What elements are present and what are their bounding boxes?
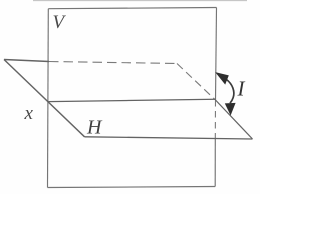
- plane V top edge: [48, 8, 216, 9]
- plane H left front edge A to B: [4, 60, 85, 137]
- plane H back top edge hidden (dashed): [49, 62, 177, 64]
- plane V bottom edge: [48, 187, 216, 188]
- svg-text:x: x: [24, 103, 34, 124]
- rotation arrow upper head: [215, 72, 229, 85]
- rotation arrow lower head: [225, 103, 236, 116]
- svg-text:H: H: [86, 117, 103, 139]
- plane H back right edge hidden (dashed): [177, 64, 216, 101]
- plane V right edge hidden dashed part: [214, 100, 216, 139]
- plane H left tip front top edge (solid): [4, 60, 49, 62]
- plane V left edge: [47, 9, 50, 188]
- plane H front bottom edge B to C: [85, 137, 253, 139]
- axis x intersection line of V and H: [48, 99, 216, 101]
- plane H right edge visible outside V (solid): [216, 100, 253, 139]
- scan artifact top line: [33, 0, 247, 2]
- rotation arrow arc: [227, 80, 234, 104]
- svg-text:I: I: [237, 77, 246, 101]
- plane V right edge lower solid part: [214, 139, 216, 187]
- plane V right edge upper solid part: [216, 8, 217, 101]
